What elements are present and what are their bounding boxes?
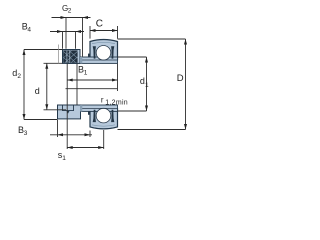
svg-text:r: r: [101, 96, 104, 105]
svg-text:2: 2: [17, 73, 21, 80]
svg-text:1: 1: [145, 82, 149, 89]
svg-text:D: D: [177, 73, 184, 84]
svg-text:C: C: [96, 19, 103, 30]
svg-text:1: 1: [84, 70, 88, 77]
svg-text:d: d: [35, 86, 40, 96]
svg-text:2: 2: [68, 8, 72, 15]
svg-text:1: 1: [62, 155, 66, 162]
svg-text:4: 4: [27, 26, 31, 33]
svg-text:1,2min: 1,2min: [105, 99, 128, 106]
svg-text:3: 3: [24, 130, 28, 137]
